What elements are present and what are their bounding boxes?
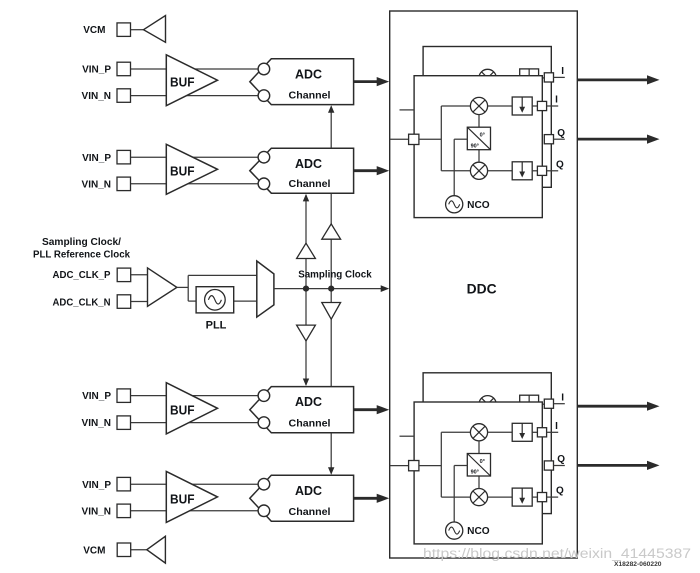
svg-text:ADC: ADC <box>295 66 323 81</box>
wire DDC1 split to top mixer <box>441 105 470 107</box>
wire DDC2 Q decimator to Q port <box>532 496 537 498</box>
wire DDC1 bottom mixer to Q decimator <box>488 170 513 172</box>
ADC channel block ADC4 <box>250 475 354 521</box>
pin VIN_P square (channel 1) <box>117 62 131 75</box>
wire DDC2 input from left edge <box>390 465 409 467</box>
filter DDC2 I decimator <box>512 423 532 441</box>
ADC channel block ADC3 <box>250 387 354 433</box>
wire DDC output thick arrow 4 <box>577 464 649 467</box>
wire VCM bottom square to triangle <box>131 549 148 551</box>
svg-text:DDC: DDC <box>467 282 497 297</box>
wire DDC2 I decimator to I port <box>532 431 537 433</box>
svg-text:VIN_P: VIN_P <box>82 153 111 164</box>
pin ADC4 N input circle <box>258 505 270 517</box>
pin DDC2 front I port square <box>537 428 546 437</box>
wire DDC2 phase splitter to bottom mixer <box>478 476 480 489</box>
wire DDC1 back I port stub <box>554 76 565 78</box>
pin DDC1 front Q port square <box>537 166 546 175</box>
mixer DDC1 Q (bottom) <box>470 162 487 179</box>
pin ADC2 N input circle <box>258 178 270 190</box>
svg-text:I: I <box>555 95 558 106</box>
svg-text:BUF: BUF <box>170 165 195 179</box>
wire DDC1 split to bottom mixer <box>441 170 470 172</box>
pin DDC2 input square <box>409 461 419 471</box>
wire DDC1 phase splitter to bottom mixer <box>478 150 480 163</box>
wire DDC2 front I port stub <box>547 431 559 433</box>
pin VIN_P square (channel 2) <box>117 150 131 164</box>
svg-text:VCM: VCM <box>83 25 105 36</box>
wire DDC1 top mixer to I decimator <box>488 105 513 107</box>
oscillator DDC1 NCO <box>446 196 463 213</box>
buffer BUF4 <box>166 471 217 522</box>
ADC channel block ADC2 <box>250 148 354 193</box>
svg-text:VIN_P: VIN_P <box>82 65 111 76</box>
wire DDC2 top mixer to phase splitter <box>478 441 480 454</box>
wire PLL bypass split vertical <box>187 275 189 301</box>
wire ADC_CLK_N pad to clock buffer <box>131 301 148 303</box>
svg-text:0°: 0° <box>480 133 485 139</box>
wire DDC2 NCO to phase splitter <box>453 466 455 523</box>
svg-text:BUF: BUF <box>170 76 195 90</box>
svg-text:X18282-060220: X18282-060220 <box>614 561 662 568</box>
wire DDC2 back Q port stub <box>554 465 565 467</box>
svg-text:Channel: Channel <box>289 418 331 430</box>
wire VIN_P pad to BUF3 <box>131 395 167 397</box>
wire DDC1 vertical split to mixers <box>440 106 442 171</box>
svg-text:VIN_N: VIN_N <box>82 506 111 517</box>
wire DDC1 I decimator to I port <box>532 105 537 107</box>
svg-text:BUF: BUF <box>170 404 195 418</box>
wire DDC output thick arrow 3 <box>577 405 649 408</box>
pin VIN_N square (channel 3) <box>117 416 131 430</box>
svg-text:Channel: Channel <box>289 178 331 190</box>
buffer BUF1 <box>166 55 217 106</box>
wire clock arrowhead into ADC2 bottom <box>303 194 309 202</box>
wire DDC1 top mixer to phase splitter <box>478 115 480 128</box>
wire DDC2 split to top mixer <box>441 431 470 433</box>
pin VIN_P square (channel 3) <box>117 389 131 403</box>
block DDC2 front sub-DDC rectangle <box>414 402 542 544</box>
wire DDC1 front Q port stub <box>547 170 559 172</box>
svg-text:I: I <box>561 66 564 77</box>
buffer VCM top triangle <box>144 16 166 43</box>
wire VIN_N pad to BUF3 <box>131 422 167 424</box>
junction dot on clock line A <box>303 286 309 292</box>
wire clock arrowhead into ADC4 top <box>328 467 334 475</box>
wire DDC1 Q decimator to Q port <box>532 170 537 172</box>
phase splitter DDC2 0/90 box <box>467 454 490 477</box>
wire DDC1 back Q port stub <box>554 138 565 140</box>
wire PLL box to mux <box>234 300 257 302</box>
svg-text:Q: Q <box>556 486 564 497</box>
pin ADC3 N input circle <box>258 417 270 429</box>
svg-text:Channel: Channel <box>289 506 331 518</box>
wire DDC2 bottom mixer to Q decimator <box>488 496 513 498</box>
wire VIN_N pad to BUF1 <box>131 95 167 97</box>
wire ADC3 output thick arrow to DDC <box>354 408 380 411</box>
wire DDC1 front I port stub <box>547 105 559 107</box>
wire DDC2 front Q port stub <box>547 496 559 498</box>
wire DDC1 stub input (second input) <box>400 109 415 111</box>
svg-text:VCM: VCM <box>83 546 105 557</box>
wire VIN_N pad to BUF2 <box>131 183 167 185</box>
pin ADC_CLK_N square <box>117 295 131 309</box>
mixer DDC2 Q (bottom) <box>470 489 487 506</box>
buffer clock triangle up on line A <box>297 243 316 258</box>
mixer DDC2 I (top) <box>470 424 487 441</box>
svg-text:VIN_P: VIN_P <box>82 480 111 491</box>
wire DDC2 vertical split to mixers <box>440 432 442 497</box>
buffer clock input amplifier triangle <box>148 268 177 307</box>
wire DDC output thick arrow 1 <box>577 79 649 82</box>
wire DDC2 back I port stub <box>554 403 565 405</box>
pin VIN_N square (channel 1) <box>117 89 131 103</box>
wire VIN_N pad to BUF4 <box>131 510 167 512</box>
wire BUF3 upper output to ADC3 P input <box>192 395 260 397</box>
mux clock select <box>257 261 274 317</box>
wire DDC2 split to bottom mixer <box>441 496 470 498</box>
svg-text:ADC_CLK_N: ADC_CLK_N <box>53 297 111 308</box>
wire VIN_P pad to BUF2 <box>131 156 167 158</box>
buffer clock triangle down on line A <box>297 325 316 341</box>
pin VCM top square <box>117 23 131 37</box>
oscillator PLL box <box>196 287 234 313</box>
wire PLL bypass top path to mux <box>188 274 257 276</box>
svg-text:90°: 90° <box>471 470 479 476</box>
svg-text:Sampling Clock/: Sampling Clock/ <box>42 237 121 248</box>
buffer BUF3 <box>166 383 217 434</box>
wire VIN_P pad to BUF1 <box>131 68 167 70</box>
wire DDC output thick arrow 2 <box>577 138 649 141</box>
wire clock amp output to split <box>177 286 188 288</box>
buffer BUF2 <box>166 144 217 194</box>
wire ADC1 output thick arrow to DDC <box>354 80 380 83</box>
pin VIN_N square (channel 2) <box>117 177 131 191</box>
svg-text:NCO: NCO <box>467 526 490 537</box>
wire BUF3 lower output to ADC3 N input <box>189 422 260 424</box>
pin VIN_P square (channel 4) <box>117 477 131 491</box>
filter DDC1 I decimator <box>512 97 532 115</box>
wire BUF4 lower output to ADC4 N input <box>190 510 260 512</box>
pin DDC2 back Q port square <box>544 461 553 470</box>
svg-text:ADC: ADC <box>295 483 323 498</box>
pin ADC1 P input circle <box>258 63 270 75</box>
filter DDC2 Q decimator <box>512 488 532 506</box>
oscillator DDC2 NCO <box>446 522 463 539</box>
svg-text:I: I <box>561 392 564 403</box>
wire DDC1 back decimator to I port <box>539 77 545 79</box>
wire BUF2 lower output to ADC2 N input <box>188 183 260 185</box>
block DDC1 back sub-DDC rectangle <box>423 47 551 188</box>
svg-text:VIN_N: VIN_N <box>82 179 111 190</box>
filter DDC1 Q decimator <box>512 162 532 180</box>
wire DDC1 back mixer to back decimator <box>496 77 520 79</box>
wire clock arrowhead into ADC1 bottom <box>328 105 334 113</box>
svg-text:VIN_N: VIN_N <box>82 418 111 429</box>
wire DDC1 input square to split <box>419 138 441 140</box>
wire DDC1 input from left edge <box>390 138 409 140</box>
pin DDC2 back I port square <box>544 399 553 408</box>
block DDC outer box <box>390 11 578 558</box>
pin ADC4 P input circle <box>258 478 270 490</box>
wire DDC1 NCO to phase splitter <box>453 139 455 196</box>
wire clock arrowhead into ADC3 top <box>303 379 309 387</box>
buffer clock triangle up on line B <box>322 224 341 239</box>
pin VIN_N square (channel 4) <box>117 504 131 517</box>
wire BUF4 upper output to ADC4 P input <box>192 483 260 485</box>
wire DDC2 back mixer to back decimator <box>496 403 520 405</box>
wire into PLL box <box>188 300 196 302</box>
svg-text:ADC_CLK_P: ADC_CLK_P <box>53 270 111 281</box>
wire clock distribution line B (x=331.2) from junction up behind ADC2 to ADC1 and down behind ADC3 to ADC4 <box>330 107 332 289</box>
pin ADC2 P input circle <box>258 151 270 163</box>
svg-text:Sampling Clock: Sampling Clock <box>298 269 372 280</box>
wire BUF2 upper output to ADC2 P input <box>193 156 260 158</box>
svg-text:VIN_P: VIN_P <box>82 391 111 402</box>
wire sampling clock from mux to DDC <box>274 288 382 290</box>
wire ADC2 output thick arrow to DDC <box>354 169 380 172</box>
wire VCM top square to triangle <box>131 29 145 31</box>
pin ADC_CLK_P square <box>117 268 131 282</box>
filter DDC1 back decimator (partially hidden) <box>520 69 539 87</box>
wire ADC4 output thick arrow to DDC <box>354 497 380 500</box>
svg-text:Channel: Channel <box>289 89 331 101</box>
svg-text:BUF: BUF <box>170 492 195 506</box>
svg-text:ADC: ADC <box>295 156 323 171</box>
mixer DDC1 I (top) <box>470 97 487 114</box>
wire DDC2 stub input (second input) <box>400 435 415 437</box>
wire clock distribution line A (x=306) from junction up to ADC2 and down to ADC3 <box>305 195 307 289</box>
pin ADC1 N input circle <box>258 90 270 102</box>
wire VIN_P pad to BUF4 <box>131 483 167 485</box>
svg-text:0°: 0° <box>480 459 485 465</box>
buffer clock triangle down on line B <box>322 303 341 320</box>
pin DDC2 front Q port square <box>537 493 546 502</box>
svg-text:Q: Q <box>556 159 564 170</box>
ADC channel block ADC1 <box>250 59 354 105</box>
wire BUF1 lower output to ADC1 N input <box>187 95 260 97</box>
wire BUF1 upper output to ADC1 P input <box>195 68 260 70</box>
svg-text:https://blog.csdn.net/weixin_4: https://blog.csdn.net/weixin_41445387 <box>423 546 691 561</box>
svg-text:VIN_N: VIN_N <box>82 91 111 102</box>
wire DDC2 input square to split <box>419 465 441 467</box>
filter DDC2 back decimator (partially hidden) <box>520 395 539 413</box>
wire DDC2 back decimator to I port <box>539 403 545 405</box>
mixer DDC2 back (partially hidden) <box>479 396 496 413</box>
svg-text:90°: 90° <box>471 143 479 149</box>
block DDC1 front sub-DDC rectangle <box>414 76 542 218</box>
svg-text:I: I <box>555 421 558 432</box>
pin DDC1 back I port square <box>544 73 553 82</box>
mixer DDC1 back (partially hidden) <box>479 69 496 86</box>
wire ADC_CLK_P pad to clock buffer <box>131 274 148 276</box>
pin ADC3 P input circle <box>258 390 270 402</box>
pin DDC1 front I port square <box>537 101 546 110</box>
svg-text:PLL: PLL <box>206 320 227 332</box>
junction dot on clock line B <box>328 286 334 292</box>
svg-text:ADC: ADC <box>295 394 323 409</box>
svg-text:Q: Q <box>557 128 565 139</box>
svg-text:PLL Reference Clock: PLL Reference Clock <box>33 249 130 260</box>
pin DDC1 back Q port square <box>544 135 553 144</box>
svg-text:Q: Q <box>557 454 565 465</box>
buffer VCM bottom triangle <box>147 536 166 563</box>
svg-text:NCO: NCO <box>467 200 490 211</box>
pin DDC1 input square <box>409 134 419 144</box>
wire DDC2 top mixer to I decimator <box>488 431 513 433</box>
pin VCM bottom square <box>117 543 131 557</box>
phase splitter DDC1 0/90 box <box>467 127 490 150</box>
block DDC2 back sub-DDC rectangle <box>423 373 551 514</box>
